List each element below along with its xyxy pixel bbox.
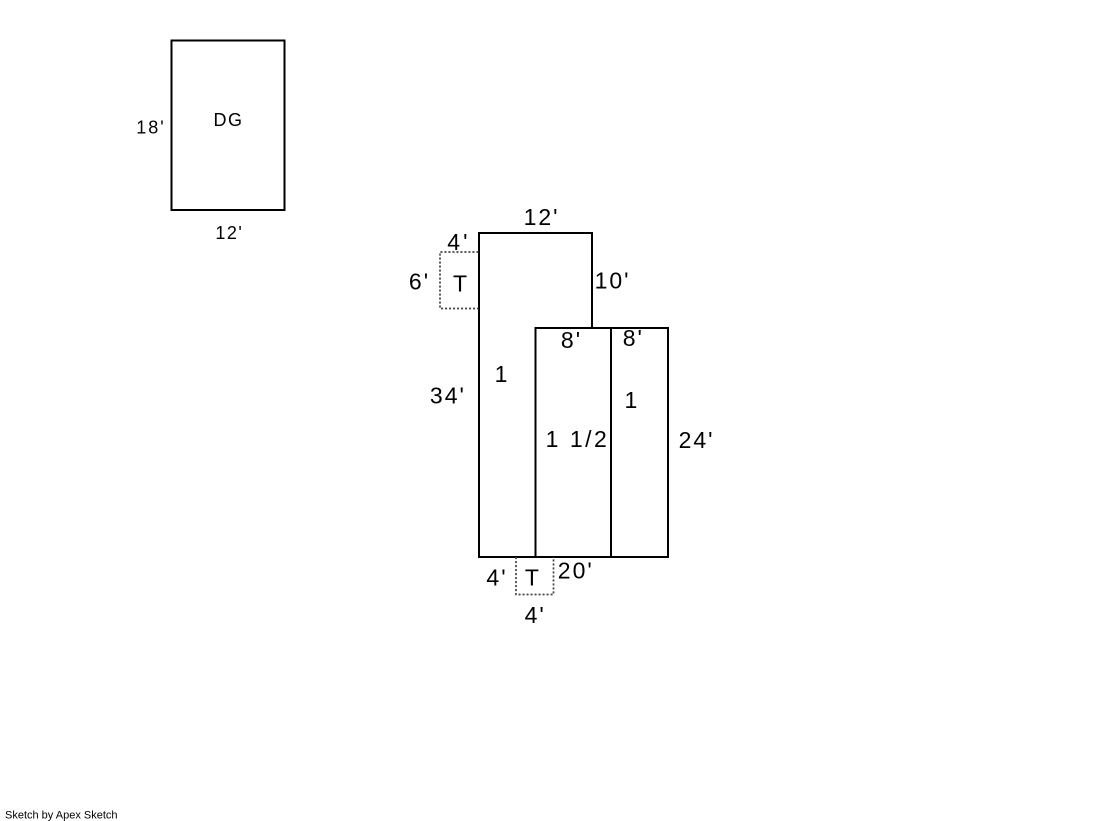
svg-text:1: 1 — [495, 361, 508, 387]
porch T west (dashed) — [440, 252, 479, 309]
wall: bottom edge 20' — [478, 556, 669, 558]
wall: top edge 12' — [478, 232, 593, 234]
detached garage rectangle DG — [172, 41, 285, 211]
svg-text:4': 4' — [447, 229, 470, 255]
svg-text:10': 10' — [595, 268, 631, 294]
interior wall: left side of 1 1/2 story section — [535, 327, 537, 557]
svg-text:8': 8' — [623, 325, 644, 351]
interior wall: right divider of 1 1/2 story section — [610, 327, 612, 557]
wall: step edge (tops of 8' sections) — [535, 327, 670, 329]
svg-text:34': 34' — [430, 382, 466, 408]
wall: right edge 24' — [667, 327, 669, 558]
svg-text:12': 12' — [524, 204, 560, 230]
svg-text:6': 6' — [409, 269, 430, 295]
svg-text:T: T — [525, 565, 539, 591]
svg-text:DG: DG — [214, 110, 244, 130]
svg-text:T: T — [453, 271, 467, 297]
porch T south (dashed) — [516, 557, 554, 595]
svg-text:1: 1 — [625, 387, 638, 413]
svg-text:20': 20' — [558, 558, 594, 584]
svg-text:4': 4' — [486, 565, 507, 591]
wall: left edge 34' — [478, 232, 480, 558]
svg-text:Sketch by Apex Sketch: Sketch by Apex Sketch — [5, 810, 118, 821]
svg-text:1 1/2: 1 1/2 — [546, 426, 610, 452]
svg-text:8': 8' — [561, 327, 582, 353]
svg-text:4': 4' — [525, 602, 546, 628]
svg-text:24': 24' — [679, 427, 715, 453]
wall: upper-right edge 10' — [591, 232, 593, 329]
svg-text:18': 18' — [136, 118, 165, 138]
svg-text:12': 12' — [215, 223, 243, 243]
